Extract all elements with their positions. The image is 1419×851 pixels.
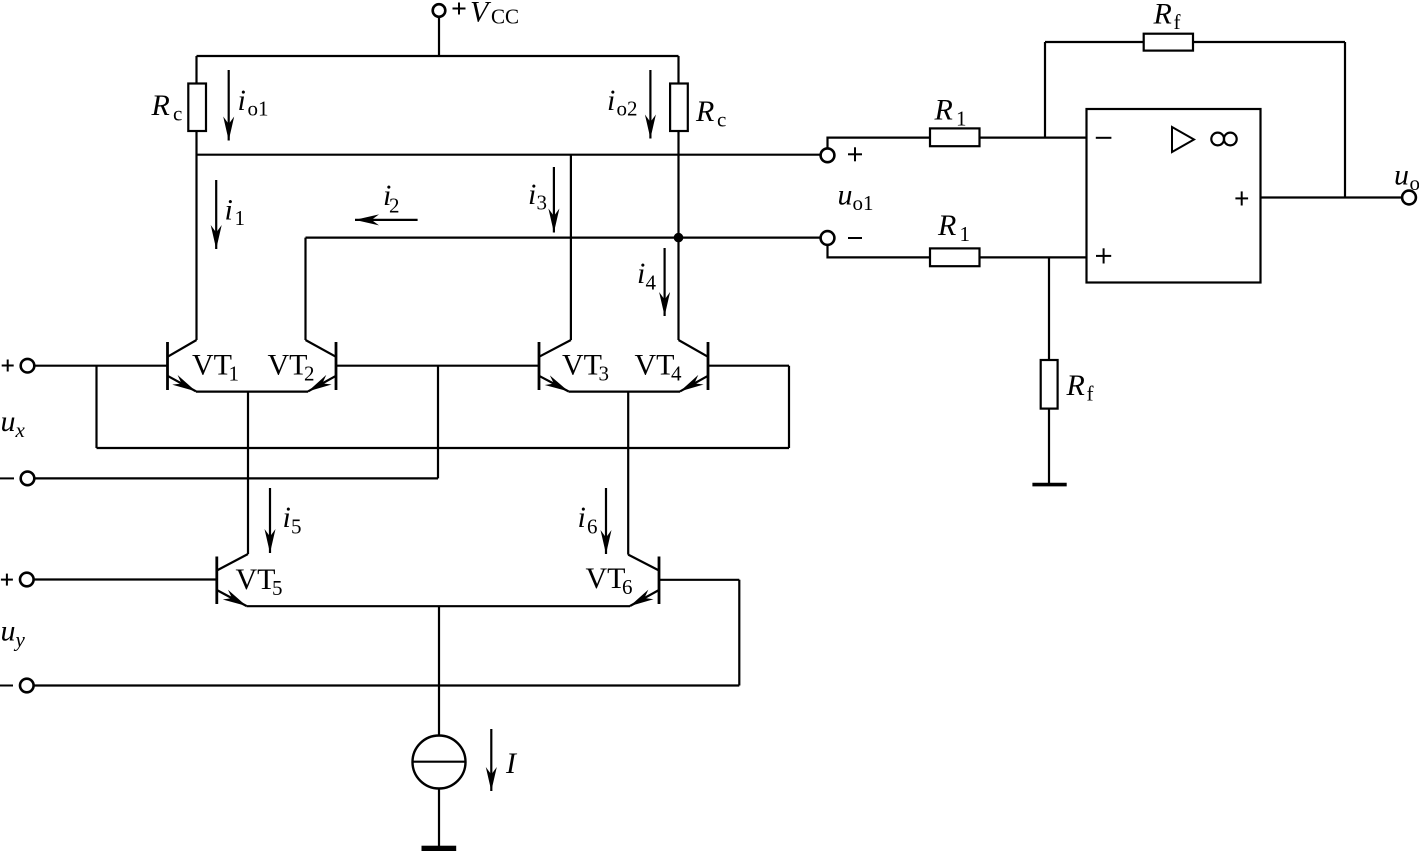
minus sign uy- (0, 685, 13, 687)
wire output bus uo1- (y=238) (306, 237, 821, 239)
input terminal ux+ (21, 359, 35, 373)
label i1 (225, 194, 246, 231)
plus sign uy+ (1, 574, 13, 586)
resistor Rc (left) (188, 84, 206, 132)
plus sign ux+ (2, 360, 14, 372)
wire VT3-VT4 emitter bus (569, 391, 681, 393)
svg-text:2: 2 (304, 362, 315, 386)
svg-text:i: i (607, 84, 615, 117)
input terminal uy- (20, 679, 34, 693)
svg-text:u: u (838, 179, 853, 212)
resistor R1 (lower) (930, 248, 980, 266)
plus sign uo1+ (848, 147, 862, 161)
svg-text:VT: VT (586, 562, 626, 595)
label i5 (283, 501, 302, 539)
wire ux+ branch down (95, 366, 97, 448)
wire VT2-VT3 base tie (336, 365, 539, 367)
svg-text:o: o (1410, 171, 1419, 195)
svg-text:3: 3 (599, 362, 610, 386)
label ux (1, 405, 26, 442)
svg-text:5: 5 (291, 515, 302, 539)
wire feedback riser (inverting input) (1044, 42, 1046, 138)
current arrow I (490, 729, 492, 791)
svg-text:u: u (1, 615, 16, 648)
svg-text:u: u (1394, 159, 1409, 192)
input terminal uy+ (20, 573, 34, 587)
svg-text:o1: o1 (853, 191, 874, 215)
svg-text:u: u (1, 405, 16, 438)
svg-text:R: R (937, 209, 956, 242)
output terminal uo1- (821, 231, 835, 245)
svg-text:CC: CC (491, 5, 519, 29)
current arrow i1 (215, 180, 217, 249)
wire VCC stem (438, 17, 440, 56)
svg-text:i: i (238, 84, 246, 117)
output terminal uo (1402, 191, 1416, 205)
svg-text:2: 2 (389, 194, 400, 218)
svg-text:6: 6 (622, 575, 633, 599)
svg-text:i: i (283, 501, 291, 534)
wire base tie drop (437, 366, 439, 479)
wire emitter tap to VT5 collector (247, 392, 249, 554)
label +VCC (470, 0, 519, 29)
wire feedback top left (1045, 41, 1144, 43)
wire left Rc top lead (195, 56, 197, 84)
resistor Rc (right) (670, 84, 688, 132)
op-amp triangle symbol (1172, 127, 1194, 152)
svg-text:x: x (15, 418, 26, 442)
wire R1 upper to op-amp (980, 137, 1087, 139)
wire op-amp output (1261, 196, 1403, 198)
svg-text:VT: VT (236, 563, 276, 596)
label VT1 (192, 349, 239, 386)
label uo (1394, 159, 1419, 196)
label Rf (top) (1153, 0, 1181, 34)
wire feedback down to output (1344, 42, 1346, 198)
label uy (1, 615, 26, 652)
wire VT2 collector riser (304, 238, 306, 340)
op-amp U1 box (1087, 109, 1261, 283)
wire right Rc top lead (677, 56, 679, 84)
resistor Rf (top) (1144, 34, 1193, 51)
wire emitter tap to current source (438, 606, 440, 735)
wire uy+ to VT5 base (34, 578, 217, 580)
wire output bus uo1+ (y=155) (197, 154, 821, 156)
wire feedback top right (1193, 41, 1345, 43)
plus sign op-amp non-inverting input (1096, 248, 1111, 263)
svg-text:o1: o1 (248, 97, 269, 121)
wire VT1-VT2 emitter bus (196, 391, 308, 393)
power terminal +VCC (433, 4, 446, 17)
svg-text:i: i (637, 257, 645, 290)
wire Rf lower to ground (1048, 409, 1050, 483)
transistor VT3 (539, 340, 571, 391)
wire right Rc bottom lead down to VT4 collector (677, 131, 679, 340)
svg-text:VT: VT (268, 349, 308, 382)
current arrow i3 (553, 167, 555, 233)
label Rc (right) (695, 95, 726, 132)
minus sign op-amp inverting input (1096, 137, 1112, 139)
label io2 (607, 84, 638, 121)
svg-text:R: R (695, 95, 714, 128)
label VT2 (268, 349, 315, 386)
current arrow io2 (649, 70, 651, 139)
wire uo1- terminal jog (828, 245, 931, 257)
wire left Rc bottom lead down to VT1 collector (195, 131, 197, 340)
transistor VT4 (679, 340, 709, 391)
node junction dot (674, 233, 684, 243)
ground (bottom) (422, 846, 457, 851)
wire ux- lead (35, 477, 439, 479)
transistor VT6 (628, 555, 659, 606)
svg-text:V: V (470, 0, 492, 29)
label VT4 (635, 349, 683, 386)
resistor Rf (lower) (1041, 360, 1058, 409)
label R1 (lower) (937, 209, 970, 246)
svg-text:i: i (528, 178, 536, 211)
minus sign uo1- (848, 237, 862, 239)
label VT5 (236, 563, 283, 600)
wire current source to ground (438, 789, 440, 847)
svg-text:1: 1 (960, 222, 971, 246)
label R1 (upper) (934, 94, 967, 131)
wire top supply bus (197, 55, 679, 57)
svg-text:1: 1 (229, 362, 240, 386)
transistor VT2 (306, 340, 337, 391)
current arrow i5 (269, 488, 271, 553)
wire emitter tap to VT6 collector (627, 392, 629, 555)
label VT3 (562, 349, 609, 386)
wire ux+ to VT1 base (35, 365, 168, 367)
svg-text:R: R (1066, 369, 1085, 402)
svg-text:VT: VT (192, 349, 232, 382)
plus sign op-amp output (1235, 191, 1248, 205)
svg-text:VT: VT (562, 349, 602, 382)
ground (Rf) (1032, 483, 1066, 487)
svg-text:o2: o2 (617, 97, 638, 121)
label io1 (238, 84, 269, 121)
svg-text:i: i (225, 194, 233, 227)
svg-text:y: y (14, 628, 26, 652)
svg-text:f: f (1174, 10, 1181, 34)
svg-text:1: 1 (956, 107, 967, 131)
svg-text:c: c (717, 108, 726, 132)
transistor VT5 (217, 554, 248, 606)
svg-text:6: 6 (587, 515, 598, 539)
wire R1 lower to op-amp (980, 256, 1087, 258)
svg-text:3: 3 (537, 191, 548, 215)
wire ux+ cross link (y=448) (97, 447, 790, 449)
svg-text:R: R (934, 94, 953, 127)
current arrow i4 (663, 248, 665, 316)
label i4 (637, 257, 657, 295)
svg-text:i: i (578, 501, 586, 534)
svg-text:1: 1 (235, 206, 246, 230)
wire VT5-VT6 emitter bus (247, 605, 631, 607)
current arrow io1 (228, 70, 230, 141)
minus sign ux- (0, 477, 14, 479)
resistor R1 (upper) (930, 128, 980, 146)
wire Rf lower tap (1048, 257, 1050, 360)
label i2 (383, 179, 400, 218)
svg-text:I: I (505, 747, 518, 780)
svg-text:R: R (151, 89, 170, 122)
svg-text:VT: VT (635, 349, 675, 382)
svg-text:5: 5 (272, 576, 283, 600)
op-amp infinity symbol (1211, 133, 1236, 146)
svg-text:4: 4 (671, 362, 682, 386)
wire uo1+ terminal jog (828, 138, 931, 149)
output terminal uo1+ (821, 148, 835, 162)
label i6 (578, 501, 598, 539)
label Rc (left) (151, 89, 183, 126)
input terminal ux- (21, 472, 35, 486)
wire VT3 collector riser (570, 155, 572, 340)
label VT6 (586, 562, 633, 599)
wire uy- lead (34, 684, 740, 686)
transistor VT1 (168, 340, 197, 391)
svg-text:c: c (173, 102, 182, 126)
wire VT4 base lead (708, 365, 789, 367)
plus sign VCC (453, 3, 466, 15)
current arrow i2 (355, 219, 418, 221)
svg-text:f: f (1087, 382, 1094, 406)
label i3 (528, 178, 547, 215)
svg-text:R: R (1153, 0, 1172, 31)
svg-text:4: 4 (646, 271, 657, 295)
wire riser to VT4 base (788, 366, 790, 448)
current source I (413, 736, 466, 789)
wire VT6 base lead (659, 579, 739, 581)
wire uy- riser (738, 580, 740, 686)
current arrow i6 (605, 488, 607, 554)
label uo1 (838, 179, 874, 216)
label Rf (lower) (1066, 369, 1094, 406)
